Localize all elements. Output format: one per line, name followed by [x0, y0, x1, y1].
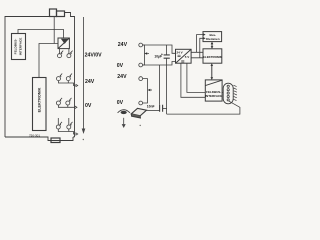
dot below rail arrow [83, 139, 84, 140]
svg-text:0V: 0V [117, 63, 124, 69]
dc/dc converter (module) [58, 38, 69, 49]
data contact branch wires [197, 35, 203, 58]
shield line to connector [167, 101, 240, 114]
elektronik box (schematic) [203, 49, 222, 63]
svg-text:Klemmen: Klemmen [206, 37, 220, 41]
10uF capacitor branch [166, 45, 168, 65]
earth arrow under rail contact [123, 118, 125, 125]
terminal 0V field [139, 101, 143, 105]
data arrow bus box / elektronik [211, 42, 214, 49]
svg-text:INTERFACE: INTERFACE [18, 38, 22, 56]
svg-text:24V: 24V [85, 79, 95, 85]
terminal 24V field [139, 77, 143, 81]
0V to 10nF drop [159, 65, 161, 105]
jumper contact row 3 (0V) [56, 98, 77, 109]
bus terminal box [203, 32, 222, 42]
svg-text:24V: 24V [117, 74, 127, 80]
svg-text:10µF: 10µF [154, 55, 162, 59]
svg-text:24V: 24V [118, 42, 128, 48]
jumper contact row 2 (24V) [57, 74, 78, 87]
small dot near 0V field [140, 125, 141, 126]
rail line end arrow [82, 129, 86, 135]
field jumper tap arrow [148, 89, 151, 92]
carrier rail symbol [131, 108, 146, 118]
rail spring contact symbol [118, 110, 130, 114]
bottom contact tab [51, 138, 60, 143]
wire top tab down [53, 17, 55, 44]
system jumper tap arrow [144, 52, 147, 55]
svg-text:24V/0V: 24V/0V [85, 52, 103, 58]
system jumper link [143, 45, 145, 65]
fieldbus interface box (module) [12, 34, 26, 60]
svg-text:10nF: 10nF [147, 104, 155, 108]
converter outputs to fieldbus interface [181, 63, 205, 97]
svg-text:750-301: 750-301 [29, 134, 40, 138]
svg-text:0V: 0V [85, 103, 92, 109]
jumper contact row 4 (bottom) [56, 118, 77, 135]
elektronik box (module) [33, 78, 47, 131]
svg-text:INTERFACE: INTERFACE [205, 94, 222, 98]
10nF to rail wire [146, 109, 159, 111]
converter outputs to elektronik [191, 52, 203, 58]
svg-text:5 V: 5 V [185, 55, 190, 59]
0V rail [143, 62, 176, 66]
top data contact tab [50, 9, 57, 17]
dc/dc converter 24V/5V [176, 49, 192, 63]
diode in converter [61, 39, 69, 44]
data arrow elektronik / fieldbus interface [211, 63, 214, 80]
terminal 24V system [139, 43, 143, 47]
jumper contact row 1 (24V/0V) [58, 49, 73, 58]
wire dc/dc to elektronik [39, 44, 58, 78]
10nF capacitor [160, 105, 163, 112]
svg-text:FELDBUS-: FELDBUS- [14, 39, 18, 55]
24V rail [143, 45, 176, 53]
right side rail line [83, 17, 85, 129]
fieldbus connector [222, 83, 237, 104]
fieldbus interface box (schematic) [205, 80, 222, 101]
svg-text:ELEKTRONIK: ELEKTRONIK [203, 55, 223, 59]
field jumper link [143, 79, 148, 103]
svg-text:24 V: 24 V [177, 51, 183, 55]
svg-text:0V: 0V [117, 100, 124, 106]
svg-text:ELEKTRONIK: ELEKTRONIK [38, 87, 42, 112]
coupler module outline [5, 13, 75, 141]
terminal 0V system [139, 63, 143, 67]
data contact arrows into bus terminals [203, 33, 206, 36]
0V to shield line drop [166, 65, 168, 114]
wire fieldbus box to dc/dc top [18, 30, 64, 39]
